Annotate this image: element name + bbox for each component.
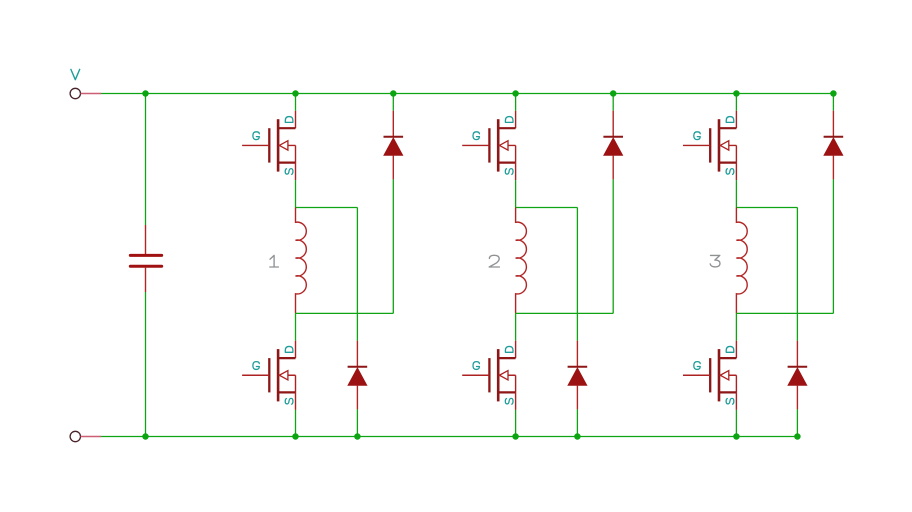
wire mid column phase 2 <box>576 208 578 341</box>
wire diode column phase 2 upper <box>612 94 614 111</box>
junction top rail mosfet column phase 2 <box>512 90 519 97</box>
wire diode column phase 3 lower <box>832 179 834 313</box>
pin label S of Q3H (high side, phase 3) <box>726 169 734 175</box>
wire node B horizontal phase 3 <box>736 312 833 314</box>
wire bottom diode to rail phase 2 <box>576 409 578 436</box>
wire source high-side to phase node 3 <box>735 180 737 207</box>
pin label D of Q1H (high side, phase 1) <box>285 117 293 123</box>
wire phase node 2 horizontal <box>516 207 578 209</box>
wire low-side source to bottom rail phase 3 <box>735 410 737 437</box>
wire inductor bottom to low-side drain phase 2 <box>515 313 517 340</box>
wire mid column phase 3 <box>796 208 798 341</box>
pin label S of Q2H (high side, phase 2) <box>505 169 513 175</box>
inductor L3 <box>736 208 747 314</box>
transistor Q1H (high side, phase 1) <box>242 111 295 180</box>
junction bottom rail mid column phase 1 <box>354 433 361 440</box>
wire source high-side to phase node 2 <box>515 180 517 207</box>
junction top rail diode column phase 2 <box>610 90 617 97</box>
value label 3 of inductor L3 <box>710 255 720 267</box>
junction bottom rail mosfet column phase 1 <box>292 433 299 440</box>
wire phase node 3 horizontal <box>736 207 797 209</box>
wire diode column phase 1 upper <box>392 94 394 111</box>
pin label S of Q1H (high side, phase 1) <box>285 169 293 175</box>
diode D2A (to V+, phase 2) <box>603 111 623 180</box>
pin label D of Q3L (low side, phase 3) <box>726 346 734 352</box>
wire cap bottom <box>145 292 147 437</box>
junction bottom rail mosfet column phase 2 <box>512 433 519 440</box>
wire low-side source to bottom rail phase 2 <box>515 410 517 437</box>
diode D3A (to V+, phase 3) <box>824 111 844 180</box>
wire diode column phase 1 lower <box>392 179 394 313</box>
junction cap top rail <box>142 90 149 97</box>
wire source high-side to phase node 1 <box>295 180 297 207</box>
wire node B horizontal phase 2 <box>516 312 614 314</box>
transistor Q3H (high side, phase 3) <box>683 111 736 180</box>
terminal V (top-left port) <box>70 88 101 98</box>
pin label S of Q2L (low side, phase 2) <box>505 398 513 404</box>
pin label G of Q2L (low side, phase 2) <box>473 362 479 370</box>
wire bottom rail <box>101 436 797 438</box>
pin label S of Q1L (low side, phase 1) <box>285 398 293 404</box>
diode D2B (freewheel low, phase 2) <box>568 341 588 410</box>
junction top rail mosfet column phase 3 <box>733 90 740 97</box>
terminal bottom-left port <box>70 431 101 441</box>
wire inductor bottom to low-side drain phase 3 <box>735 313 737 340</box>
pin label D of Q2L (low side, phase 2) <box>505 346 513 352</box>
inductor L2 <box>516 208 527 314</box>
wire bottom diode to rail phase 3 <box>796 409 798 436</box>
pin label D of Q3H (high side, phase 3) <box>726 117 734 123</box>
pin label G of Q1H (high side, phase 1) <box>253 132 259 140</box>
pin label D of Q1L (low side, phase 1) <box>285 346 293 352</box>
wire phase node 1 horizontal <box>296 207 358 209</box>
diode D1A (to V+, phase 1) <box>384 111 404 180</box>
label V (net name) <box>71 69 80 79</box>
wire node B horizontal phase 1 <box>296 312 394 314</box>
transistor Q1L (low side, phase 1) <box>242 341 295 410</box>
wire cap top <box>145 94 147 226</box>
junction top rail diode column phase 3 <box>830 90 837 97</box>
junction cap bottom rail <box>142 433 149 440</box>
wire drain high-side phase 1 <box>295 94 297 111</box>
pin label G of Q1L (low side, phase 1) <box>253 362 259 370</box>
pin label G of Q2H (high side, phase 2) <box>473 132 479 140</box>
diode D3B (freewheel low, phase 3) <box>788 341 808 410</box>
wire bottom diode to rail phase 1 <box>356 409 358 436</box>
diode D1B (freewheel low, phase 1) <box>348 341 368 410</box>
pin label G of Q3H (high side, phase 3) <box>694 132 700 140</box>
wire top rail V+ <box>101 93 833 95</box>
transistor Q3L (low side, phase 3) <box>683 341 736 410</box>
junction bottom rail mosfet column phase 3 <box>733 433 740 440</box>
wire mid column phase 1 <box>356 208 358 341</box>
wire inductor bottom to low-side drain phase 1 <box>295 313 297 340</box>
wire low-side source to bottom rail phase 1 <box>295 410 297 437</box>
value label 1 of inductor L1 <box>270 255 279 267</box>
junction bottom rail mid column phase 3 <box>794 433 801 440</box>
wire drain high-side phase 3 <box>735 94 737 111</box>
capacitor C1 <box>130 225 161 292</box>
inductor L1 <box>296 208 307 314</box>
pin label G of Q3L (low side, phase 3) <box>694 362 700 370</box>
pin label D of Q2H (high side, phase 2) <box>505 117 513 123</box>
wire diode column phase 3 upper <box>832 94 834 111</box>
transistor Q2H (high side, phase 2) <box>462 111 515 180</box>
junction top rail diode column phase 1 <box>390 90 397 97</box>
junction bottom rail mid column phase 2 <box>574 433 581 440</box>
junction top rail mosfet column phase 1 <box>292 90 299 97</box>
value label 2 of inductor L2 <box>489 255 499 267</box>
wire drain high-side phase 2 <box>515 94 517 111</box>
transistor Q2L (low side, phase 2) <box>462 341 515 410</box>
pin label S of Q3L (low side, phase 3) <box>726 398 734 404</box>
wire diode column phase 2 lower <box>612 179 614 313</box>
